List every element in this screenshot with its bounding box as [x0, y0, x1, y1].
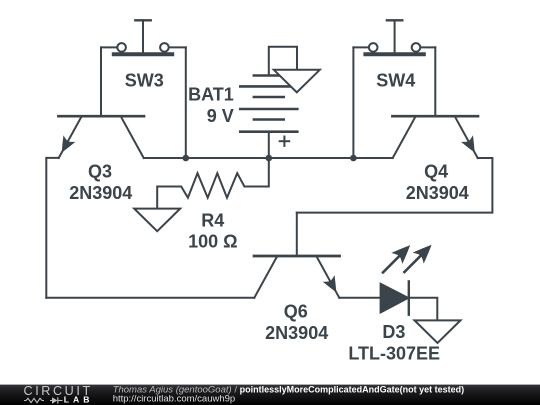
logo squiggle resistor+diode [24, 398, 44, 402]
svg-text:http://circuitlab.com/cauwh9p: http://circuitlab.com/cauwh9p [113, 394, 236, 405]
battery BAT1 bottom terminal lead [268, 132, 270, 158]
svg-text:Q4: Q4 [424, 162, 448, 182]
resistor R4 [157, 158, 269, 209]
svg-text:Q3: Q3 [88, 162, 112, 182]
svg-text:100 Ω: 100 Ω [188, 232, 237, 252]
wire: Q4 emitter jog, down, left to Q6 base [297, 158, 493, 213]
wire: SW3 right contact down to rail [168, 46, 186, 48]
battery BAT1 plates [254, 74, 284, 76]
svg-text:LTL-307EE: LTL-307EE [348, 343, 440, 363]
wire: SW4 left contact down to rail [353, 46, 369, 48]
transistor Q4 [392, 115, 478, 118]
switch SW4 left contact [369, 43, 378, 52]
switch SW4 right contact [412, 43, 421, 52]
wire: Q6 base lead [296, 213, 298, 256]
node dot: SW3 right / rail [183, 155, 190, 162]
node dot: SW4 left / rail [350, 155, 357, 162]
svg-text:9 V: 9 V [207, 106, 234, 126]
wire: SW4 right contact to Q4 base [420, 46, 435, 48]
svg-text:SW4: SW4 [376, 70, 415, 90]
transistor Q6 [254, 255, 340, 258]
wire: Q3 emitter jog and left vertical [46, 158, 58, 298]
CircuitLab logo [24, 384, 94, 404]
svg-text:2N3904: 2N3904 [265, 323, 328, 343]
svg-text:R4: R4 [201, 211, 224, 231]
LED D3 light arrow 2 [404, 257, 420, 273]
svg-text:LAB: LAB [64, 395, 94, 405]
svg-text:Q6: Q6 [284, 301, 308, 321]
wire: SW3 left contact to Q3 base [101, 46, 118, 48]
battery BAT1 top terminal lead to ground [269, 47, 297, 76]
svg-text:SW3: SW3 [125, 70, 164, 90]
node dot: battery + / R4 / rail [266, 155, 273, 162]
switch SW3 left contact [117, 43, 126, 52]
ground at R4 [134, 209, 180, 232]
svg-text:2N3904: 2N3904 [406, 183, 469, 203]
battery plus sign [280, 140, 290, 142]
pushbutton switch SW3 actuator [135, 19, 150, 21]
wire: main horizontal rail [144, 157, 393, 159]
svg-text:D3: D3 [382, 322, 405, 342]
switch SW3 right contact [160, 43, 169, 52]
pushbutton switch SW4 actuator [387, 19, 402, 21]
svg-text:BAT1: BAT1 [188, 85, 234, 105]
ground at D3 cathode [415, 320, 461, 343]
wire: Q6 right leg to LED anode [339, 297, 380, 299]
ground at battery negative [274, 70, 320, 93]
LED D3 diode [381, 284, 409, 313]
wire: bottom horizontal to Q6 left leg [46, 297, 254, 299]
wire: LED cathode to ground [409, 298, 438, 321]
svg-text:2N3904: 2N3904 [69, 183, 132, 203]
LED D3 light arrow 1 [383, 257, 399, 273]
transistor Q3 [58, 115, 144, 118]
